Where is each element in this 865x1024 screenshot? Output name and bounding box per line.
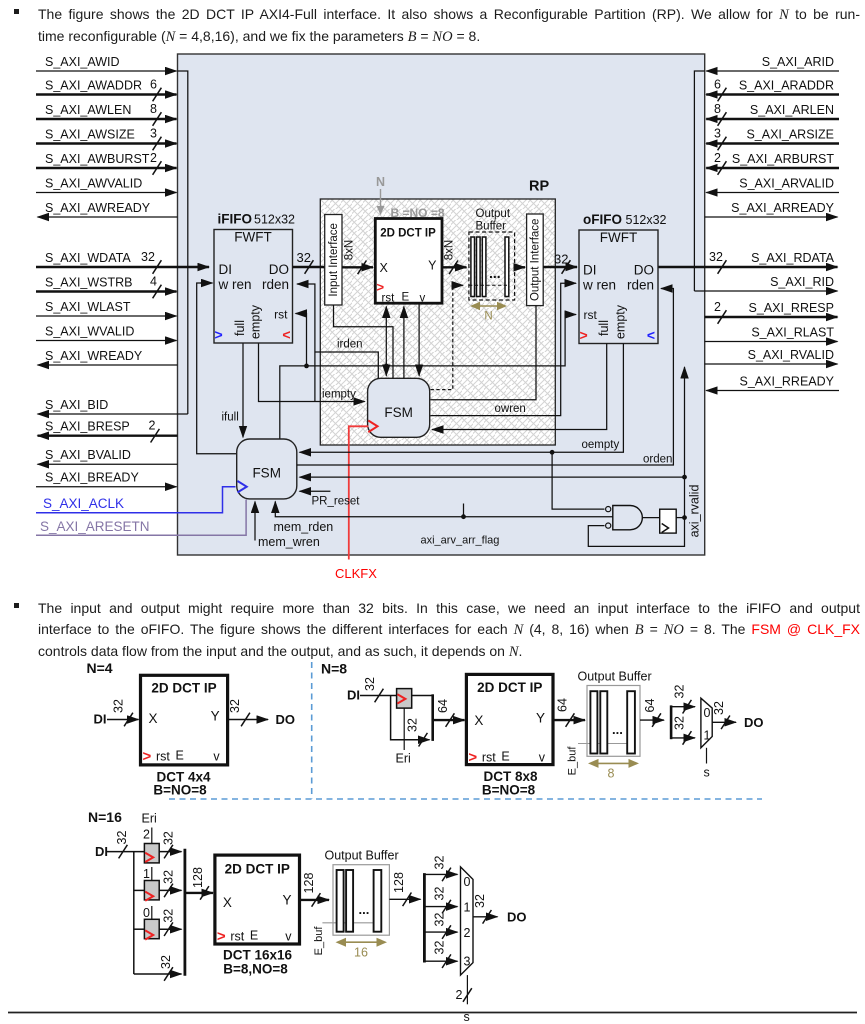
junction on rst net at DCT branch <box>384 364 389 369</box>
wire split 3 32-bit (N=16) <box>424 941 457 968</box>
svg-text:32: 32 <box>673 716 687 730</box>
svg-text:32: 32 <box>228 699 242 713</box>
node split bar (N=16) <box>423 873 426 962</box>
wire input to R0 <box>134 928 145 930</box>
svg-text:2D DCT IP: 2D DCT IP <box>380 228 436 240</box>
svg-text:8: 8 <box>714 102 721 116</box>
wire ARID-to-RID inner vertical bus <box>694 71 704 291</box>
signal S_AXI_AWBURST <box>36 151 177 175</box>
svg-text:Eri: Eri <box>142 812 157 826</box>
svg-text:oempty: oempty <box>582 439 620 451</box>
op-amp... 2D DCT IP core (N=4) <box>141 675 228 765</box>
wire DI input (N=4), 32-bit <box>94 699 139 726</box>
wire R1 output 32-bit <box>159 870 181 897</box>
signal S_AXI_RREADY <box>706 375 839 391</box>
svg-text:S_AXI_ARSIZE: S_AXI_ARSIZE <box>746 128 834 142</box>
svg-text:N=4: N=4 <box>87 660 113 676</box>
label 8 depth (tan double arrow, N=8) <box>588 759 639 781</box>
Input Interface block <box>325 215 342 306</box>
svg-text:FSM: FSM <box>252 466 281 481</box>
svg-text:0: 0 <box>464 875 471 889</box>
wire input to R1 <box>134 889 145 891</box>
wire Output Interface control from inner FSM <box>431 306 537 400</box>
svg-text:full: full <box>597 320 611 336</box>
wire E enable (inner FSM to DCT E) <box>403 307 405 379</box>
svg-text:32: 32 <box>162 831 176 845</box>
Output Buffer (main, dashed) <box>469 208 515 300</box>
signal S_AXI_WSTRB <box>36 275 177 299</box>
svg-text:2: 2 <box>456 988 463 1002</box>
svg-text:S_AXI_AWID: S_AXI_AWID <box>45 55 120 69</box>
svg-text:<: < <box>647 327 655 343</box>
svg-text:S_AXI_AWBURST: S_AXI_AWBURST <box>45 152 150 166</box>
wire Input Interface control from inner FSM <box>334 305 394 378</box>
svg-text:S_AXI_AWSIZE: S_AXI_AWSIZE <box>45 128 135 142</box>
svg-text:32: 32 <box>162 909 176 923</box>
svg-text:owren: owren <box>495 403 526 415</box>
clock input chevron (red) on inner FSM <box>368 421 377 433</box>
svg-text:rst: rst <box>382 293 396 305</box>
svg-text:iempty: iempty <box>322 389 356 401</box>
svg-text:3: 3 <box>464 955 471 969</box>
svg-text:Output Buffer: Output Buffer <box>325 849 399 863</box>
svg-text:E: E <box>176 749 184 763</box>
svg-text:>: > <box>468 749 477 766</box>
signal S_AXI_BREADY <box>36 471 177 487</box>
svg-text:w ren: w ren <box>582 278 616 293</box>
signal S_AXI_AWLEN <box>36 102 177 126</box>
svg-text:32: 32 <box>162 870 176 884</box>
svg-text:Y: Y <box>282 893 291 908</box>
signal S_AXI_BRESP <box>38 419 178 443</box>
wire oempty branch to NAND input <box>552 452 604 509</box>
svg-text:S_AXI_BVALID: S_AXI_BVALID <box>45 448 131 462</box>
svg-text:32: 32 <box>115 831 129 845</box>
svg-text:S_AXI_RDATA: S_AXI_RDATA <box>751 251 835 265</box>
wire NAND output to flip-flop <box>642 517 659 519</box>
2D DCT IP core (main) <box>375 219 442 305</box>
svg-text:DI: DI <box>219 262 233 277</box>
svg-text:32: 32 <box>554 252 568 267</box>
svg-text:v: v <box>539 751 546 765</box>
svg-text:128: 128 <box>392 872 406 893</box>
Output Buffer box (N=8) <box>587 686 640 757</box>
signal S_AXI_ARLEN <box>706 102 839 126</box>
svg-text:axi_rvalid: axi_rvalid <box>688 485 702 538</box>
wire R2 output 32-bit <box>159 831 181 858</box>
wire Eri enable stub (N=8) <box>396 708 411 765</box>
node axi_arv_arr_flag tap <box>421 504 500 547</box>
AXI4-Full interface outer block <box>178 54 705 555</box>
svg-text:1: 1 <box>143 867 150 881</box>
wire 64-bit into DCT X (N=8) <box>433 699 465 727</box>
svg-text:E: E <box>250 929 258 943</box>
wire mux select s (N=8) <box>704 748 710 780</box>
svg-text:X: X <box>223 895 232 910</box>
NAND gate U-rvalid <box>613 506 643 530</box>
svg-text:S_AXI_BREADY: S_AXI_BREADY <box>45 471 139 485</box>
wire DO output (N=4), 32-bit <box>228 699 295 727</box>
svg-text:2: 2 <box>714 300 721 314</box>
node split bar (N=8) <box>670 705 673 739</box>
Output Interface block <box>527 214 544 306</box>
svg-text:0: 0 <box>704 706 711 720</box>
signal S_AXI_WLAST <box>36 300 177 316</box>
junction axi_rvalid at horizontal tap <box>682 475 687 480</box>
svg-text:rst: rst <box>230 930 244 944</box>
svg-text:E_buf: E_buf <box>313 926 325 956</box>
svg-text:v: v <box>285 930 292 944</box>
svg-text:Y: Y <box>536 711 545 726</box>
svg-text:rden: rden <box>627 278 654 293</box>
wire E_buf enable (N=8) <box>567 744 629 776</box>
svg-text:64: 64 <box>556 698 570 712</box>
mux 4:1 (N=16) <box>461 867 474 975</box>
bottom page rule <box>8 1012 857 1014</box>
svg-text:X: X <box>474 713 483 728</box>
svg-text:32: 32 <box>433 856 447 870</box>
svg-text:PR_reset: PR_reset <box>312 496 361 508</box>
signal S_AXI_ARVALID <box>706 177 839 193</box>
wire v valid (DCT v to inner FSM) <box>418 303 420 376</box>
svg-text:DI: DI <box>583 263 597 278</box>
svg-text:N=16: N=16 <box>88 809 122 825</box>
svg-text:32: 32 <box>709 250 723 264</box>
wire owren (inner FSM to oFIFO w ren) <box>431 283 577 415</box>
svg-text:32: 32 <box>406 718 420 732</box>
signal S_AXI_AWVALID <box>36 177 177 193</box>
svg-text:full: full <box>233 320 247 336</box>
svg-text:Y: Y <box>211 709 220 724</box>
Output Buffer registers (N=16) <box>337 870 382 932</box>
NAND input bubble (upper) <box>606 507 611 512</box>
wire split 1 32-bit (N=16) <box>424 887 457 914</box>
svg-text:S_AXI_AWVALID: S_AXI_AWVALID <box>45 177 142 191</box>
svg-text:S_AXI_WREADY: S_AXI_WREADY <box>45 349 143 363</box>
svg-text:E_buf: E_buf <box>567 746 579 776</box>
svg-text:Eri: Eri <box>396 752 411 766</box>
register R0 (N=16, gray with red clock) <box>143 906 159 940</box>
svg-text:8xN: 8xN <box>344 240 356 260</box>
signal S_AXI_AWADDR <box>36 78 177 102</box>
svg-text:8xN: 8xN <box>444 240 456 260</box>
svg-text:s: s <box>704 766 710 780</box>
wire NAND feedback from flip-flop output <box>588 518 684 547</box>
oFIFO 512x32 FWFT <box>579 212 667 344</box>
svg-text:2: 2 <box>149 419 156 433</box>
FSM (inner, RP) <box>368 378 430 437</box>
svg-text:iFIFO: iFIFO <box>218 212 253 227</box>
svg-text:empty: empty <box>249 304 263 339</box>
svg-text:orden: orden <box>643 454 672 466</box>
svg-text:rst: rst <box>584 308 598 322</box>
svg-text:32: 32 <box>297 250 311 265</box>
node concat bar (N=8) <box>431 694 434 741</box>
svg-text:S_AXI_RVALID: S_AXI_RVALID <box>748 348 834 362</box>
register R1 (N=16, gray with red clock) <box>143 867 159 901</box>
svg-text:DO: DO <box>634 263 654 278</box>
svg-text:B=8,NO=8: B=8,NO=8 <box>223 962 288 977</box>
svg-text:32: 32 <box>712 701 726 715</box>
svg-text:64: 64 <box>643 699 657 713</box>
svg-text:X: X <box>380 261 389 275</box>
svg-text:Input Interface: Input Interface <box>328 223 340 297</box>
wire split lower 32-bit (N=8) <box>671 716 695 745</box>
svg-text:w ren: w ren <box>218 277 252 292</box>
signal S_AXI_RLAST <box>705 326 838 342</box>
signal S_AXI_ARID <box>706 55 839 71</box>
wire DCT Y to Output Buffer, 8xN bus <box>442 240 467 274</box>
wire DO output 32-bit (N=8) <box>712 701 764 730</box>
signal S_AXI_WDATA <box>36 250 209 274</box>
svg-text:DI: DI <box>95 844 108 859</box>
svg-text:>: > <box>580 327 588 343</box>
svg-text:Y: Y <box>428 259 437 273</box>
svg-text:32: 32 <box>433 887 447 901</box>
svg-text:DO: DO <box>269 262 289 277</box>
wire mem_rden / axi_arv_arr_flag to NAND <box>274 502 613 535</box>
svg-text:S_AXI_ACLK: S_AXI_ACLK <box>43 496 124 511</box>
svg-text:S_AXI_AWREADY: S_AXI_AWREADY <box>45 201 151 215</box>
iFIFO 512x32 FWFT <box>214 212 295 344</box>
wire Input Interface to DCT X, 8xN bus <box>342 240 373 274</box>
wire oempty (oFIFO empty to outer FSM) <box>300 344 624 453</box>
wire DCT Y out 128-bit (N=16) <box>300 873 330 907</box>
svg-text:1: 1 <box>704 729 711 743</box>
svg-text:512x32: 512x32 <box>254 213 295 227</box>
wire mux select s 2-bit (N=16) <box>456 975 472 1024</box>
svg-text:rst: rst <box>156 750 170 764</box>
junction on rst net at iFIFO branch <box>304 364 309 369</box>
wire split upper 32-bit (N=8) <box>671 685 695 714</box>
svg-text:128: 128 <box>191 867 205 888</box>
svg-text:CLKFX: CLKFX <box>335 566 377 581</box>
svg-text:S_AXI_BRESP: S_AXI_BRESP <box>45 420 130 434</box>
Output Buffer registers (N=8) <box>590 691 635 753</box>
wire split 0 32-bit (N=16) <box>424 856 457 882</box>
svg-text:S_AXI_ARADDR: S_AXI_ARADDR <box>739 79 834 93</box>
signal S_AXI_AWID <box>36 55 177 71</box>
wire buffer out 128-bit (N=16) <box>389 872 420 906</box>
wire Output Interface to oFIFO DI, 32-bit bus <box>543 252 577 274</box>
svg-text:S_AXI_WSTRB: S_AXI_WSTRB <box>45 276 133 290</box>
wire Output Buffer to Output Interface <box>515 266 525 268</box>
signal S_AXI_AWSIZE <box>36 127 177 151</box>
label 16 depth (tan double arrow, N=16) <box>336 938 388 960</box>
RP reconfigurable partition (hatched) <box>320 199 555 445</box>
svg-text:E: E <box>402 292 410 304</box>
svg-text:S_AXI_RID: S_AXI_RID <box>770 275 834 289</box>
wire register output (N=8 upper) <box>412 695 433 697</box>
svg-text:S_AXI_ARLEN: S_AXI_ARLEN <box>750 103 834 117</box>
junction on oempty at NAND branch <box>550 450 555 455</box>
svg-text:FWFT: FWFT <box>234 230 271 245</box>
svg-text:32: 32 <box>673 685 687 699</box>
svg-text:6: 6 <box>150 78 157 92</box>
svg-text:128: 128 <box>302 873 316 894</box>
svg-text:FSM: FSM <box>384 405 413 420</box>
svg-text:N: N <box>376 175 385 189</box>
svg-text:2: 2 <box>464 926 471 940</box>
svg-text:Output Buffer: Output Buffer <box>578 670 652 684</box>
svg-text:Buffer: Buffer <box>476 221 507 233</box>
svg-text:Output Interface: Output Interface <box>530 219 542 301</box>
svg-text:>: > <box>217 928 226 945</box>
wire input bus vertical (N=16) <box>133 852 135 974</box>
wire PR_reset stub into outer FSM <box>300 491 361 507</box>
svg-text:2: 2 <box>150 151 157 165</box>
svg-text:2D DCT IP: 2D DCT IP <box>151 681 216 696</box>
svg-text:S_AXI_ARREADY: S_AXI_ARREADY <box>731 201 834 215</box>
svg-text:ifull: ifull <box>222 412 239 424</box>
svg-text:S_AXI_ARVALID: S_AXI_ARVALID <box>739 177 834 191</box>
svg-text:2: 2 <box>143 828 150 842</box>
svg-text:4: 4 <box>150 275 157 289</box>
register R2 (N=16, gray with red clock) <box>143 828 159 863</box>
svg-text:axi_arv_arr_flag: axi_arv_arr_flag <box>421 535 500 547</box>
wire E_buf enable (N=16) <box>313 923 374 956</box>
wire DI input (N=16), 32-bit <box>95 831 144 859</box>
svg-text:DI: DI <box>347 688 360 703</box>
svg-text:FWFT: FWFT <box>600 230 637 245</box>
Output Buffer box (N=16) <box>333 865 389 936</box>
signal S_AXI_RVALID <box>705 348 838 364</box>
svg-text:1: 1 <box>464 901 471 915</box>
op-amp... 2D DCT IP core (N=16) <box>215 855 300 945</box>
label N depth of output buffer (tan double arrow) <box>470 302 507 323</box>
signal S_AXI_RRESP <box>705 300 838 324</box>
svg-text:...: ... <box>489 265 501 281</box>
svg-text:S_AXI_WLAST: S_AXI_WLAST <box>45 300 131 314</box>
svg-text:S_AXI_ARBURST: S_AXI_ARBURST <box>732 152 834 166</box>
svg-text:2D DCT IP: 2D DCT IP <box>225 862 290 877</box>
svg-text:B=NO=8: B=NO=8 <box>482 783 536 798</box>
svg-text:mem_wren: mem_wren <box>258 535 320 549</box>
svg-text:v: v <box>213 750 220 764</box>
svg-text:S_AXI_BID: S_AXI_BID <box>45 398 108 412</box>
signal S_AXI_WVALID <box>36 325 177 341</box>
Output Buffer registers (bars) <box>471 237 509 297</box>
svg-text:32: 32 <box>159 955 173 969</box>
svg-text:64: 64 <box>436 699 450 713</box>
svg-text:S_AXI_ARESETN: S_AXI_ARESETN <box>40 519 150 534</box>
op-amp... 2D DCT IP core (N=8) <box>466 674 553 766</box>
svg-text:3: 3 <box>714 127 721 141</box>
wire orden (outer FSM to oFIFO rden) <box>297 289 674 466</box>
svg-text:DO: DO <box>507 910 527 925</box>
svg-text:32: 32 <box>112 699 126 713</box>
svg-text:8: 8 <box>608 767 615 781</box>
svg-text:>: > <box>143 748 152 765</box>
wire DCT Y out 64-bit (N=8) <box>553 698 585 727</box>
separator dashed horizontal (blue) <box>169 798 762 800</box>
signal S_AXI_AWREADY <box>38 201 178 217</box>
svg-text:S_AXI_RREADY: S_AXI_RREADY <box>740 375 835 389</box>
svg-text:N: N <box>484 311 492 323</box>
svg-text:S_AXI_RLAST: S_AXI_RLAST <box>751 326 834 340</box>
mux 2:1 (N=8) <box>701 698 712 748</box>
svg-text:S_AXI_AWLEN: S_AXI_AWLEN <box>45 103 131 117</box>
wire mem_wren stub into outer FSM <box>255 502 320 550</box>
wire split 2 32-bit (N=16) <box>424 913 457 939</box>
wire iFIFO DO to Input Interface, 32-bit bus <box>293 250 325 274</box>
svg-text:DO: DO <box>276 712 296 727</box>
signal S_AXI_WREADY <box>38 349 178 365</box>
signal S_AXI_ARREADY <box>705 201 838 217</box>
svg-text:8: 8 <box>150 102 157 116</box>
svg-text:2D DCT IP: 2D DCT IP <box>477 680 542 695</box>
svg-text:mem_rden: mem_rden <box>274 520 334 534</box>
signal S_AXI_ARSIZE <box>706 127 839 151</box>
svg-text:Output: Output <box>476 208 511 220</box>
wire R0 output 32-bit <box>159 909 181 936</box>
svg-text:rst: rst <box>482 751 496 765</box>
register R-eri (N=8, gray with red clock) <box>397 689 412 709</box>
wire direct branch (N=8 lower), 32-bit <box>391 696 430 747</box>
wire DI input (N=8), 32-bit <box>347 677 397 702</box>
wire ifull (iFIFO full to outer FSM) <box>222 344 244 438</box>
signal S_AXI_RDATA <box>658 250 838 274</box>
svg-text:B=NO=8: B=NO=8 <box>153 783 207 798</box>
wire AWID-to-BID inner vertical bus <box>178 71 188 414</box>
svg-text:S_AXI_WDATA: S_AXI_WDATA <box>45 251 131 265</box>
svg-text:<: < <box>282 327 290 343</box>
signal S_AXI_ARBURST <box>706 151 839 175</box>
wire rst net (outer FSM to iFIFO/DCT/oFIFO rst) <box>280 315 576 439</box>
signal S_AXI_ARESETN (reset, purple) <box>36 500 246 536</box>
svg-text:N=8: N=8 <box>321 661 347 677</box>
svg-text:S_AXI_WVALID: S_AXI_WVALID <box>45 325 134 339</box>
FSM (outer, AXI) <box>237 439 297 499</box>
wire FSM to Output Buffer enable (dashed) <box>431 285 464 389</box>
svg-text:...: ... <box>359 902 370 917</box>
wire iFIFO rst branch <box>296 314 307 366</box>
flip-flop register (axi_rvalid) <box>660 509 677 533</box>
wire w ren arrowhead into iFIFO <box>200 282 213 284</box>
svg-text:DI: DI <box>94 712 107 727</box>
svg-text:S_AXI_ARID: S_AXI_ARID <box>762 55 834 69</box>
svg-text:empty: empty <box>614 304 628 339</box>
signal S_AXI_ARADDR <box>706 78 839 102</box>
wire iempty (iFIFO empty to inner FSM) <box>259 344 365 402</box>
svg-text:32: 32 <box>473 894 487 908</box>
svg-text:DCT 16x16: DCT 16x16 <box>223 948 293 963</box>
svg-text:E: E <box>501 750 509 764</box>
wire irden (inner FSM to iFIFO rden) <box>297 284 378 402</box>
wire 128-bit into DCT X (N=16) <box>185 867 213 900</box>
wire CLKFX (red clock) <box>335 426 377 581</box>
node concat bar (N=16) <box>183 849 186 976</box>
signal S_AXI_BID <box>38 398 188 414</box>
svg-text:...: ... <box>612 722 623 737</box>
svg-text:DO: DO <box>744 715 764 730</box>
separator dashed vertical (blue) <box>311 662 313 799</box>
svg-text:rden: rden <box>262 277 289 292</box>
wire axi_rvalid net into outer FSM <box>300 476 685 478</box>
signal S_AXI_ACLK (clock, blue) <box>36 487 236 513</box>
svg-text:oFIFO: oFIFO <box>583 212 622 227</box>
svg-text:512x32: 512x32 <box>626 213 667 227</box>
svg-text:>: > <box>215 327 223 343</box>
svg-text:S_AXI_RRESP: S_AXI_RRESP <box>749 301 834 315</box>
svg-text:6: 6 <box>714 78 721 92</box>
svg-text:S_AXI_AWADDR: S_AXI_AWADDR <box>45 79 142 93</box>
svg-text:32: 32 <box>363 677 377 691</box>
svg-text:32: 32 <box>433 941 447 955</box>
svg-text:s: s <box>464 1010 470 1024</box>
node N (gray run-time parameter arrow) <box>376 175 385 215</box>
svg-text:irden: irden <box>337 339 363 351</box>
